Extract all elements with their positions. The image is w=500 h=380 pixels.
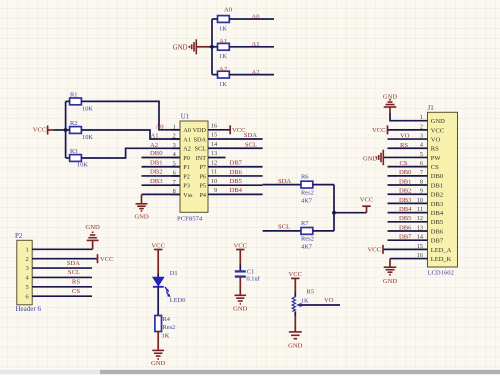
resistor R1 10K — [70, 92, 94, 113]
svg-text:VCC: VCC — [372, 127, 386, 134]
svg-text:10K: 10K — [77, 162, 88, 169]
svg-text:Header 6: Header 6 — [16, 305, 42, 313]
connector J1 LCD1602 body — [428, 104, 458, 276]
wire (J1 pin1) — [390, 113, 428, 121]
svg-text:VO: VO — [431, 136, 441, 143]
svg-text:A0: A0 — [183, 127, 191, 134]
wire — [212, 46, 218, 48]
svg-text:A1: A1 — [183, 136, 191, 143]
resistor R6 Res2 4K7 — [301, 173, 314, 204]
svg-text:LED0: LED0 — [170, 297, 186, 304]
svg-text:DB4: DB4 — [431, 210, 444, 217]
wire — [294, 311, 296, 316]
svg-text:LCD1602: LCD1602 — [428, 269, 454, 276]
svg-text:1K: 1K — [219, 25, 227, 32]
wire — [157, 332, 159, 345]
wire — [212, 74, 218, 76]
svg-text:RS: RS — [72, 279, 80, 286]
wire (J1 DB4) — [388, 212, 428, 214]
svg-text:3: 3 — [26, 265, 29, 272]
svg-text:0.1uf: 0.1uf — [247, 276, 261, 283]
ground (C1) — [233, 295, 248, 312]
wire — [142, 184, 181, 186]
wire — [209, 46, 212, 48]
wire (U1 DB5) — [208, 184, 263, 186]
svg-text:PCF8574: PCF8574 — [177, 216, 203, 223]
svg-text:2: 2 — [173, 133, 176, 140]
svg-text:CS: CS — [72, 288, 80, 295]
wire (J1 pin5) — [383, 156, 427, 158]
svg-text:5: 5 — [173, 160, 176, 167]
power VCC (U1 VDD) — [229, 125, 231, 134]
svg-text:Res2: Res2 — [163, 324, 176, 331]
svg-text:DB0: DB0 — [399, 169, 412, 176]
svg-text:P3: P3 — [183, 183, 190, 190]
wire — [239, 278, 241, 296]
svg-text:GND: GND — [151, 360, 166, 367]
wire (P2 RS) — [32, 286, 92, 288]
J1 pin names — [431, 118, 452, 263]
svg-text:R1: R1 — [70, 92, 77, 99]
wire — [142, 166, 181, 168]
wire (J1 pin6) — [388, 166, 428, 168]
svg-text:DB0: DB0 — [431, 173, 443, 180]
svg-text:VCC: VCC — [234, 242, 248, 249]
svg-text:DB2: DB2 — [399, 188, 411, 195]
wire — [334, 212, 367, 214]
svg-text:SDA: SDA — [244, 132, 257, 139]
wire — [263, 230, 301, 232]
svg-text:R5: R5 — [307, 289, 314, 296]
power VCC (C1) — [234, 242, 248, 264]
svg-text:1K: 1K — [301, 298, 309, 305]
J1 pin numbers 1-16 — [417, 114, 424, 259]
wire — [66, 129, 70, 131]
wire (P2 pin2) — [32, 258, 97, 260]
wire (R1 to U1 pin1) — [81, 101, 180, 129]
wire (wiper to VO) — [301, 304, 340, 306]
svg-text:A0: A0 — [224, 6, 233, 13]
svg-text:9: 9 — [214, 187, 217, 194]
svg-text:10K: 10K — [82, 134, 93, 141]
svg-text:DB7: DB7 — [431, 238, 444, 245]
resistor R7 Res2 4K7 — [301, 220, 314, 251]
svg-text:VDD: VDD — [193, 127, 207, 134]
resistor 1K (row A2) — [218, 71, 230, 88]
svg-text:DB6: DB6 — [230, 169, 243, 176]
wire — [66, 157, 70, 159]
U1 pin numbers (left 1-8) — [173, 123, 177, 195]
svg-text:A1: A1 — [150, 133, 158, 140]
svg-text:DB3: DB3 — [431, 201, 443, 208]
svg-text:DB7: DB7 — [230, 160, 243, 167]
wire (P2 CS) — [32, 295, 92, 297]
svg-text:P4: P4 — [199, 192, 206, 199]
svg-text:SDA: SDA — [278, 178, 291, 185]
svg-text:A2: A2 — [183, 146, 191, 153]
resistor R4 Res2 1K — [155, 316, 175, 340]
svg-text:VCC: VCC — [360, 197, 374, 204]
svg-text:R7: R7 — [301, 220, 309, 227]
resistor R3 10K — [70, 148, 89, 168]
svg-text:SCL: SCL — [195, 146, 207, 153]
junction — [64, 128, 68, 132]
svg-text:A2: A2 — [219, 66, 227, 73]
svg-text:DB3: DB3 — [150, 178, 163, 185]
svg-text:P5: P5 — [199, 183, 206, 190]
op-amp U1 PCF8574 body — [177, 113, 208, 223]
ground (LED/R4) — [151, 344, 166, 367]
svg-text:GND: GND — [363, 155, 378, 162]
junction — [332, 211, 336, 215]
svg-text:Res2: Res2 — [301, 190, 314, 197]
resistor 1K (row A0) — [218, 16, 230, 33]
svg-text:VO: VO — [400, 133, 410, 140]
wire — [313, 230, 334, 232]
svg-text:Vss: Vss — [183, 192, 193, 199]
svg-text:GND: GND — [288, 343, 303, 350]
svg-text:P7: P7 — [199, 164, 206, 171]
svg-text:DB2: DB2 — [150, 169, 162, 176]
wire — [157, 287, 159, 316]
wire (P2 SDA) — [32, 267, 92, 269]
svg-text:INT: INT — [196, 155, 207, 162]
svg-text:10: 10 — [211, 178, 217, 185]
U1 pin names (left) — [183, 127, 193, 199]
wire (R6-R7 join) — [333, 185, 335, 231]
svg-text:DB5: DB5 — [230, 178, 243, 185]
wire (J1 DB7) — [388, 239, 428, 241]
svg-text:RS: RS — [431, 146, 439, 153]
wire — [229, 46, 274, 48]
svg-text:12: 12 — [211, 159, 217, 166]
wire (J1 DB3) — [388, 202, 428, 204]
wire — [54, 129, 66, 131]
U1 left pins — [172, 130, 181, 195]
power VCC (left) — [33, 126, 54, 135]
svg-text:VO: VO — [324, 297, 334, 304]
wire — [229, 18, 274, 20]
svg-text:SDA: SDA — [67, 260, 80, 267]
svg-text:DB3: DB3 — [399, 197, 412, 204]
svg-text:GND: GND — [383, 278, 398, 285]
svg-text:1: 1 — [173, 123, 176, 130]
svg-text:A2: A2 — [252, 69, 260, 76]
svg-text:DB1: DB1 — [431, 182, 443, 189]
wire — [142, 156, 181, 158]
wire (R3 to U1 pin3) — [81, 148, 180, 158]
wire (U1 INT stub) — [208, 156, 226, 158]
svg-text:Res2: Res2 — [301, 236, 314, 243]
scrollbar — [0, 368, 500, 375]
capacitor C1 0.1uf — [235, 269, 261, 283]
svg-text:A0: A0 — [155, 124, 164, 131]
wire (J1 DB2) — [388, 193, 428, 195]
svg-text:R6: R6 — [301, 173, 308, 180]
svg-text:CS: CS — [431, 164, 439, 171]
svg-text:P6: P6 — [199, 173, 206, 180]
svg-text:4K7: 4K7 — [301, 243, 313, 250]
svg-text:A0: A0 — [252, 13, 261, 20]
P2 pin numbers 1-6 — [26, 246, 30, 300]
junction — [210, 45, 214, 49]
wire (J1 DB1) — [388, 184, 428, 186]
svg-text:GND: GND — [431, 118, 445, 125]
wire (U1 DB6) — [208, 175, 263, 177]
svg-text:SDA: SDA — [194, 136, 207, 143]
wire (vertical joining R1 R2 R3) — [65, 101, 67, 158]
power VCC (P2 pin2) — [97, 254, 99, 263]
potentiometer R5 1K — [292, 289, 314, 312]
svg-text:1: 1 — [26, 246, 29, 253]
svg-text:P2: P2 — [183, 173, 190, 180]
svg-text:VCC: VCC — [151, 242, 165, 249]
svg-text:10K: 10K — [82, 105, 93, 112]
svg-text:13: 13 — [211, 150, 217, 157]
wire (U1 pin8 Vss) — [142, 193, 181, 195]
svg-text:RS: RS — [400, 142, 408, 149]
svg-text:A2: A2 — [150, 142, 158, 149]
connector P2 Header 6 body — [15, 232, 41, 313]
wire (J1 pin4) — [388, 147, 428, 149]
wire (U1 DB7) — [208, 166, 263, 168]
svg-text:GND: GND — [233, 305, 248, 312]
wire (J1 pin2) — [388, 129, 428, 131]
resistor R2 10K — [70, 120, 94, 141]
svg-text:DB6: DB6 — [431, 228, 444, 235]
wire (P2 pin1) — [32, 248, 92, 250]
svg-text:C1: C1 — [247, 269, 254, 276]
wire (P2 SCL) — [32, 276, 92, 278]
power VCC (J1 pin15) — [382, 245, 384, 254]
svg-text:P0: P0 — [183, 155, 190, 162]
svg-text:DB2: DB2 — [431, 192, 443, 199]
ground (top A-select) — [173, 39, 209, 54]
wire — [239, 265, 241, 271]
svg-text:DB5: DB5 — [399, 215, 412, 222]
svg-text:16: 16 — [211, 122, 217, 129]
svg-text:R4: R4 — [163, 316, 171, 323]
svg-text:DB4: DB4 — [230, 187, 243, 194]
svg-text:A1: A1 — [252, 41, 260, 48]
wire — [66, 100, 70, 102]
ground (J1 pin5) — [363, 150, 383, 166]
svg-text:P2: P2 — [15, 232, 23, 240]
ground (U1 Vss) — [134, 194, 149, 220]
svg-text:DB6: DB6 — [399, 224, 412, 231]
wire (U1 SCL) — [208, 147, 263, 149]
wire (J1 DB5) — [388, 221, 428, 223]
power VCC (J1 pin2) — [387, 125, 389, 134]
svg-text:U1: U1 — [181, 113, 190, 121]
svg-text:1K: 1K — [162, 333, 170, 340]
wire — [229, 74, 274, 76]
svg-text:P1: P1 — [183, 164, 190, 171]
svg-text:15: 15 — [211, 132, 217, 139]
svg-text:4K7: 4K7 — [301, 197, 313, 204]
svg-text:PW: PW — [431, 155, 442, 162]
svg-text:DB7: DB7 — [399, 234, 412, 241]
wire (J1 DB0) — [388, 175, 428, 177]
svg-text:3: 3 — [173, 142, 176, 149]
svg-text:VCC: VCC — [289, 271, 303, 278]
svg-text:R2: R2 — [70, 120, 77, 127]
ground (J1 pin1) — [383, 93, 398, 113]
LED D1 — [153, 270, 186, 304]
ground (P2 pin1) — [85, 224, 100, 249]
svg-text:DB1: DB1 — [399, 178, 411, 185]
wire (vertical bus joining R-A0..R-A2) — [211, 19, 213, 75]
U1 pin names (right) — [193, 127, 207, 199]
svg-text:DB4: DB4 — [399, 206, 412, 213]
wire (U1 pin16) — [208, 129, 230, 131]
svg-text:1K: 1K — [219, 81, 227, 88]
svg-text:J1: J1 — [428, 104, 435, 112]
wire (J1 DB6) — [388, 230, 428, 232]
wire — [313, 184, 334, 186]
svg-text:6: 6 — [173, 170, 176, 177]
power VCC (R5) — [289, 271, 303, 292]
svg-text:R3: R3 — [70, 148, 77, 155]
svg-text:GND: GND — [173, 44, 188, 51]
svg-text:11: 11 — [211, 169, 217, 176]
U1 pin numbers (right 16-9) — [211, 122, 218, 194]
svg-text:2: 2 — [26, 256, 29, 263]
svg-text:7: 7 — [173, 179, 176, 186]
wire — [263, 184, 301, 186]
wire (U1 SDA) — [208, 138, 263, 140]
svg-text:VCC: VCC — [100, 256, 114, 263]
svg-text:SCL: SCL — [278, 223, 290, 230]
wire — [212, 18, 218, 20]
ground (R5) — [288, 316, 303, 350]
wire (R2 to U1 pin2) — [81, 130, 180, 139]
svg-text:A1: A1 — [219, 38, 227, 45]
svg-text:CS: CS — [400, 160, 408, 167]
wire (U1 DB4) — [208, 193, 263, 195]
svg-text:D1: D1 — [170, 270, 178, 277]
svg-text:VCC: VCC — [367, 247, 381, 254]
svg-text:GND: GND — [134, 214, 149, 221]
wire — [294, 293, 296, 297]
svg-text:14: 14 — [211, 141, 218, 148]
svg-text:LED_K: LED_K — [431, 256, 452, 263]
power VCC (pullups) — [360, 197, 374, 213]
wire (J1 pin16) — [390, 258, 428, 260]
wire (J1 pin3) — [388, 138, 428, 140]
svg-text:LED_A: LED_A — [431, 247, 452, 254]
svg-text:DB0: DB0 — [150, 150, 163, 157]
svg-text:5: 5 — [26, 284, 29, 291]
svg-text:DB1: DB1 — [150, 159, 162, 166]
svg-text:GND: GND — [85, 224, 100, 231]
wire — [157, 274, 159, 278]
power VCC (LED) — [151, 242, 165, 273]
resistor 1K (row A1) — [218, 43, 230, 60]
svg-text:DB5: DB5 — [431, 219, 443, 226]
svg-text:GND: GND — [383, 93, 398, 100]
ground (J1 pin16) — [383, 259, 398, 285]
svg-text:1K: 1K — [219, 53, 227, 60]
svg-text:VCC: VCC — [33, 126, 47, 133]
wire — [142, 175, 181, 177]
svg-text:SCL: SCL — [245, 141, 257, 148]
svg-text:VCC: VCC — [431, 127, 444, 134]
wire (J1 pin15) — [383, 248, 428, 250]
svg-text:SCL: SCL — [68, 269, 80, 276]
svg-text:8: 8 — [173, 188, 176, 195]
